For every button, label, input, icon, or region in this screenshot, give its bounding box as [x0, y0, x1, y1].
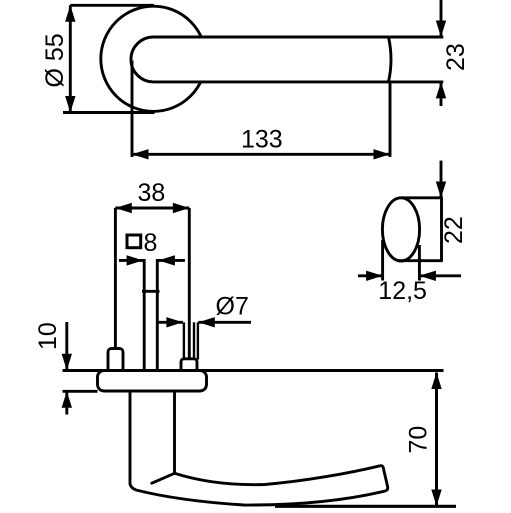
arrow up 23	[436, 82, 446, 99]
arrow right 133	[374, 149, 391, 159]
lever neck right line	[173, 391, 176, 473]
lever neck left line	[130, 391, 136, 490]
arrow down 10	[62, 354, 72, 371]
spindle joint tick	[142, 290, 160, 293]
grip section right line	[440, 198, 443, 261]
screw right line	[197, 322, 199, 359]
lever handle bar (top view)	[131, 37, 391, 82]
arrow left tip 12.5	[419, 271, 436, 281]
rose plate (edge view)	[98, 371, 207, 392]
grip top edge	[175, 466, 381, 485]
arrow left 38	[115, 203, 132, 213]
arrow right tip D7	[166, 317, 183, 327]
svg-text:70: 70	[405, 426, 433, 454]
svg-text:133: 133	[241, 126, 283, 154]
arrow left 133	[132, 149, 149, 159]
dimension 8 left tail	[119, 259, 143, 262]
svg-text:10: 10	[34, 322, 62, 350]
screw inner line	[193, 322, 195, 359]
arrow up D55	[65, 5, 75, 22]
extension line 38 left	[114, 208, 117, 349]
grip section ellipse	[382, 198, 419, 261]
arrow down 23	[436, 21, 446, 38]
dimension D7 right tail	[198, 321, 251, 324]
svg-text:Ø 55: Ø 55	[41, 33, 69, 87]
grip bottom edge	[136, 490, 386, 505]
extension line bar top right	[390, 36, 443, 39]
arrow up 10	[62, 391, 72, 408]
grip top-left spur	[152, 473, 175, 483]
extension line bar bottom right	[390, 80, 443, 83]
svg-text:23: 23	[442, 43, 470, 71]
door surface line	[63, 369, 444, 372]
svg-text:22: 22	[440, 216, 468, 244]
arrow down grip section	[436, 182, 446, 199]
arrow down D55	[65, 96, 75, 113]
arrow left tip 8	[158, 255, 175, 265]
spindle left line	[143, 259, 146, 371]
extension line 133 left	[131, 61, 134, 158]
arrow up 70	[431, 373, 441, 390]
arrow right tip 12.5	[366, 271, 383, 281]
spindle right line	[156, 259, 159, 371]
extension line 38 right	[188, 208, 191, 359]
extension line bottom of circle	[63, 111, 155, 114]
extension line 12.5 right	[418, 245, 421, 281]
extension line 70 bottom	[275, 505, 456, 508]
extension line 133 right	[389, 82, 392, 157]
grip section bottom line	[398, 259, 443, 262]
right screw head	[181, 359, 197, 372]
dimension line 70	[435, 373, 438, 507]
screw left line	[183, 322, 185, 359]
extension line top of circle	[70, 4, 154, 7]
svg-text:Ø7: Ø7	[216, 292, 249, 320]
dimension line 23 upper	[440, 0, 443, 37]
extension line 12.5 left	[381, 240, 384, 281]
svg-text:38: 38	[138, 179, 166, 207]
dimension line 10 upper	[65, 322, 68, 370]
dimension line D55	[69, 5, 72, 112]
arrow right tip 8	[127, 255, 144, 265]
grip section top line	[401, 196, 443, 199]
grip tip end	[380, 466, 388, 491]
arrow left tip D7	[198, 317, 215, 327]
dimension 12.5 right tail	[419, 274, 461, 277]
extension line 10 bottom	[63, 390, 98, 393]
square spindle symbol	[127, 235, 141, 248]
left fixing post	[108, 349, 123, 372]
dimension 8 right tail	[158, 259, 185, 262]
leader line to grip section	[440, 161, 443, 198]
dimension D7 left tail	[158, 321, 183, 324]
svg-text:12,5: 12,5	[378, 277, 427, 305]
arrow right 38	[173, 203, 190, 213]
arrow down 70	[431, 490, 441, 507]
dimension 12.5 left tail	[358, 274, 383, 277]
dimension line 133	[132, 153, 390, 156]
dimension line 38	[115, 207, 189, 210]
rose circle (top view)	[101, 6, 206, 111]
dimension line 23 lower	[440, 82, 443, 106]
svg-text:8: 8	[144, 229, 158, 257]
dimension line 10 lower	[65, 391, 68, 414]
